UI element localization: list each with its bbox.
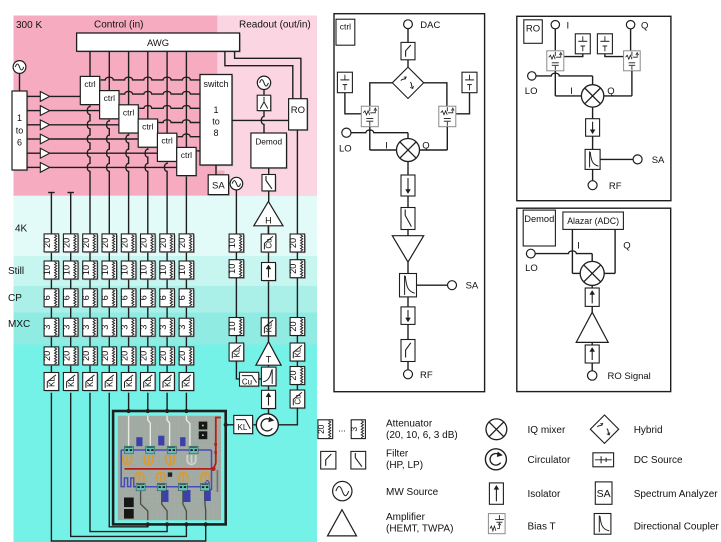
svg-text:I: I [577,241,580,252]
svg-text:20: 20 [288,238,298,248]
svg-text:20: 20 [139,351,149,361]
svg-text:KL: KL [233,347,242,357]
svg-text:10: 10 [62,265,72,275]
svg-text:20: 20 [139,238,149,248]
svg-text:20: 20 [177,238,187,248]
svg-text:6: 6 [119,295,129,300]
svg-text:RF: RF [420,370,433,381]
svg-text:20: 20 [100,351,110,361]
svg-text:to: to [16,126,24,136]
svg-text:KL: KL [265,322,274,332]
svg-text:20: 20 [42,238,52,248]
svg-text:20: 20 [119,351,129,361]
svg-text:RO Signal: RO Signal [608,371,651,382]
svg-text:(HP, LP): (HP, LP) [386,460,423,471]
svg-text:SA: SA [652,155,665,166]
svg-text:6: 6 [139,295,149,300]
svg-text:1: 1 [213,105,218,115]
svg-text:10: 10 [42,265,52,275]
svg-text:20: 20 [81,238,91,248]
svg-text:T: T [266,355,272,365]
svg-text:I: I [570,86,573,97]
svg-text:6: 6 [177,295,187,300]
svg-text:10: 10 [100,265,110,275]
svg-text:KL: KL [106,377,115,387]
svg-text:MXC: MXC [8,319,30,330]
svg-text:(20, 10, 6, 3 dB): (20, 10, 6, 3 dB) [386,430,458,441]
svg-text:20: 20 [288,370,298,380]
svg-text:(HEMT, TWPA): (HEMT, TWPA) [386,524,453,535]
svg-text:10: 10 [227,238,237,248]
svg-text:20: 20 [81,351,91,361]
svg-text:KL: KL [183,377,192,387]
svg-text:to: to [212,117,220,127]
svg-text:6: 6 [17,138,22,148]
svg-text:CP: CP [8,293,22,304]
svg-text:1: 1 [17,113,22,123]
svg-text:LO: LO [525,86,538,97]
svg-text:Amplifier: Amplifier [386,512,426,523]
svg-text:ctrl: ctrl [84,79,95,89]
svg-text:Q: Q [641,21,648,32]
svg-text:ctrl: ctrl [142,122,153,132]
svg-text:KL: KL [294,347,303,357]
svg-text:ctrl: ctrl [123,107,134,117]
svg-text:6: 6 [62,295,72,300]
svg-text:...: ... [338,424,346,434]
svg-text:10: 10 [227,321,237,331]
svg-text:IQ mixer: IQ mixer [528,425,566,436]
svg-text:3: 3 [100,325,110,330]
svg-text:10: 10 [139,265,149,275]
svg-text:Spectrum Analyzer: Spectrum Analyzer [634,489,719,500]
svg-text:Attenuator: Attenuator [386,419,433,430]
svg-text:10: 10 [158,265,168,275]
svg-text:Cu: Cu [265,238,274,248]
svg-text:20: 20 [316,424,326,434]
svg-text:Demod: Demod [524,214,554,224]
svg-text:SA: SA [212,180,225,191]
svg-text:KL: KL [67,377,76,387]
svg-text:3: 3 [42,325,52,330]
svg-text:Still: Still [8,266,24,277]
svg-text:Q: Q [623,241,630,252]
svg-text:3: 3 [119,325,129,330]
svg-text:Alazar (ADC): Alazar (ADC) [567,216,619,226]
svg-text:3: 3 [62,325,72,330]
svg-text:20: 20 [42,351,52,361]
svg-text:3: 3 [177,325,187,330]
svg-text:20: 20 [158,351,168,361]
svg-text:LO: LO [339,144,352,155]
svg-text:20: 20 [100,238,110,248]
svg-text:I: I [567,21,570,32]
svg-text:10: 10 [81,265,91,275]
svg-text:I: I [385,140,388,151]
svg-text:Bias T: Bias T [528,522,556,533]
svg-text:Cu: Cu [242,378,252,387]
svg-text:Control (in): Control (in) [94,20,143,31]
svg-text:RO: RO [526,24,540,35]
svg-text:6: 6 [42,295,52,300]
svg-text:20: 20 [177,351,187,361]
svg-text:H: H [265,215,272,225]
svg-text:RF: RF [609,181,622,192]
svg-text:6: 6 [81,295,91,300]
svg-text:KL: KL [144,377,153,387]
svg-text:ctrl: ctrl [181,150,192,160]
svg-text:RO: RO [291,105,305,116]
svg-text:20: 20 [288,264,298,274]
svg-text:8: 8 [213,128,218,138]
svg-text:Demod: Demod [255,137,282,147]
svg-text:20: 20 [119,238,129,248]
svg-text:20: 20 [62,351,72,361]
svg-text:Q: Q [422,140,429,151]
svg-text:ctrl: ctrl [161,136,172,146]
svg-text:10: 10 [227,264,237,274]
svg-text:MW Source: MW Source [386,487,439,498]
svg-text:4K: 4K [15,224,28,235]
svg-text:Directional Coupler: Directional Coupler [634,522,720,533]
svg-text:Q: Q [607,86,614,97]
svg-text:20: 20 [288,321,298,331]
svg-text:Hybrid: Hybrid [634,425,663,436]
svg-text:KL: KL [86,377,95,387]
svg-text:Filter: Filter [386,449,409,460]
svg-text:3: 3 [81,325,91,330]
svg-text:Readout (out/in): Readout (out/in) [239,20,311,31]
svg-text:KL: KL [48,377,57,387]
svg-text:Cu: Cu [294,394,303,404]
svg-text:6: 6 [158,295,168,300]
svg-text:AWG: AWG [147,37,169,48]
svg-text:3: 3 [349,427,359,432]
svg-text:KL: KL [125,377,134,387]
svg-text:switch: switch [203,79,228,89]
svg-text:KL: KL [238,423,248,432]
svg-text:20: 20 [158,238,168,248]
svg-text:20: 20 [62,238,72,248]
svg-text:ctrl: ctrl [340,22,351,32]
svg-text:SA: SA [466,281,479,292]
svg-text:LO: LO [525,263,538,274]
svg-text:KL: KL [163,377,172,387]
svg-text:Circulator: Circulator [528,455,571,466]
svg-text:DC Source: DC Source [634,455,683,466]
svg-text:300 K: 300 K [16,20,42,31]
svg-text:DAC: DAC [420,20,440,31]
svg-text:6: 6 [100,295,110,300]
svg-text:10: 10 [119,265,129,275]
svg-text:ctrl: ctrl [104,93,115,103]
svg-text:SA: SA [597,488,611,500]
svg-text:3: 3 [139,325,149,330]
svg-text:Isolator: Isolator [528,489,561,500]
svg-text:3: 3 [158,325,168,330]
svg-text:10: 10 [177,265,187,275]
